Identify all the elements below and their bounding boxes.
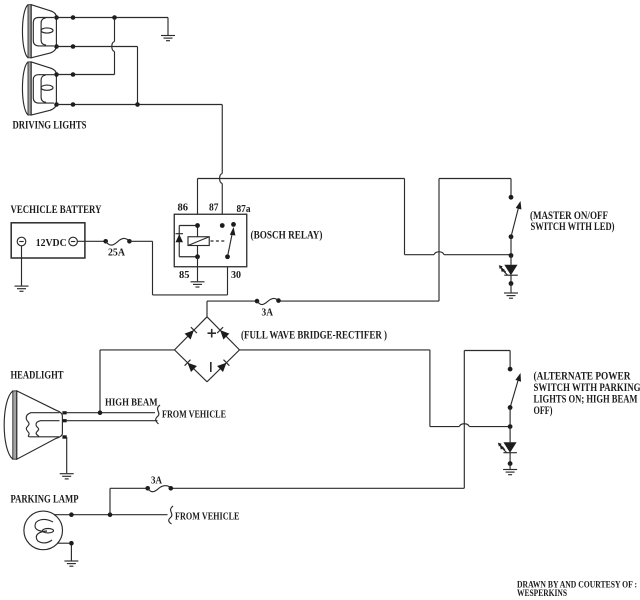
svg-text:30: 30 xyxy=(231,270,241,281)
ground master xyxy=(504,293,518,298)
parking lamp PL1 xyxy=(24,511,63,550)
svg-text:(BOSCH RELAY): (BOSCH RELAY) xyxy=(251,228,323,242)
bridge diode bottom-left xyxy=(185,360,197,372)
wire bridge right vertex to alt switch junction xyxy=(240,350,430,427)
driving light lamp DL1 xyxy=(22,5,58,58)
wire battery negative to ground xyxy=(21,246,23,286)
wire bridge left vertex to high beam junction xyxy=(100,350,175,413)
svg-text:WESPERKINS: WESPERKINS xyxy=(517,588,567,598)
node junction V1 top xyxy=(112,15,117,20)
wire LED2 to ground xyxy=(509,464,511,469)
wire parking lamp from vehicle xyxy=(54,514,167,516)
svg-text:VECHICLE BATTERY: VECHICLE BATTERY xyxy=(11,202,102,216)
svg-text:PARKING LAMP: PARKING LAMP xyxy=(11,492,79,506)
driving light lamp DL2 xyxy=(22,62,58,115)
wire parking 3A fuse line to alt switch top xyxy=(110,351,510,515)
node high beam junction xyxy=(98,410,103,415)
bridge diode top-left xyxy=(185,327,197,339)
svg-text:FROM VEHICLE: FROM VEHICLE xyxy=(162,410,226,421)
wire to master junction with hop over VB xyxy=(405,252,512,255)
ground alt xyxy=(503,470,517,475)
fuse F1 25A xyxy=(103,238,131,258)
wire DL2 top terminal xyxy=(57,74,115,76)
svg-text:25A: 25A xyxy=(108,248,126,259)
node parking fuse junction xyxy=(108,512,113,517)
wire master switch top feed xyxy=(439,179,511,198)
svg-text:87: 87 xyxy=(209,203,219,214)
svg-text:SWITCH WITH LED): SWITCH WITH LED) xyxy=(531,219,615,233)
node alt junction xyxy=(508,424,513,429)
ground parking xyxy=(64,561,78,566)
wire relay 85 to ground xyxy=(197,257,199,282)
bridge minus mark xyxy=(210,362,212,372)
wire DL2 bottom terminal to relay 87 feed xyxy=(57,104,223,106)
node master junction xyxy=(509,253,514,258)
svg-text:OFF): OFF) xyxy=(534,403,553,417)
svg-text:86: 86 xyxy=(178,203,189,214)
ground relay xyxy=(191,282,205,287)
wire vertical V1 linking DL1-top and DL2-top with hop over y46 xyxy=(112,18,115,75)
wire high beam from vehicle xyxy=(67,412,155,414)
relay U1 box xyxy=(174,214,247,267)
wire headlight low terminal from vehicle xyxy=(67,420,158,422)
wire relay 87 feed vertical with hop over y178 xyxy=(220,105,223,226)
node on wire at x72 xyxy=(71,72,76,77)
wire relay 86 up and right to master switch circuit xyxy=(198,179,405,255)
ground G1 xyxy=(161,18,175,41)
wire headlight ground terminal xyxy=(66,437,68,473)
wire DL1 bottom terminal xyxy=(57,46,138,48)
svg-text:HIGH BEAM: HIGH BEAM xyxy=(105,398,158,409)
bridge diode bottom-right xyxy=(217,360,229,372)
node relay 86 xyxy=(195,223,200,228)
svg-text:DRIVING LIGHTS: DRIVING LIGHTS xyxy=(13,118,87,132)
relay diode D1 branch xyxy=(176,226,198,257)
wire parking lamp bottom to ground xyxy=(58,543,72,560)
node relay 87a xyxy=(231,222,236,227)
bridge rectifier BR1 diamond xyxy=(175,317,240,382)
switch SW2 alternate power xyxy=(508,367,521,427)
node relay 30 xyxy=(225,254,230,259)
ground headlight xyxy=(60,474,74,479)
node on wire at x72 xyxy=(71,102,76,107)
fuse F3 3A (parking) xyxy=(145,476,173,492)
relay dashed actuator link xyxy=(211,240,225,242)
svg-text:85: 85 xyxy=(179,270,190,281)
svg-text:3A: 3A xyxy=(262,308,274,319)
bridge plus mark xyxy=(208,329,217,338)
LED1 xyxy=(499,256,518,286)
wire 3A fuse line bridge top to VB xyxy=(207,301,439,317)
squiggle wire-end marker (parking) xyxy=(169,506,173,524)
svg-text:FROM VEHICLE: FROM VEHICLE xyxy=(175,512,240,523)
wire alt junction feed with hop xyxy=(430,424,510,427)
node junction V2 bottom xyxy=(135,102,140,107)
wire battery positive to fuse xyxy=(77,240,105,242)
battery BT1 12VDC xyxy=(11,223,85,258)
bridge diode top-right xyxy=(217,327,229,339)
relay coil branch wire 86 to 85 xyxy=(197,226,199,257)
LED2 xyxy=(498,427,517,466)
svg-text:3A: 3A xyxy=(151,476,163,487)
relay contact arm 30 to 87a with arrowhead xyxy=(228,227,236,257)
node on wire at x72 xyxy=(71,44,76,49)
svg-text:(FULL WAVE BRIDGE-RECTIFER ): (FULL WAVE BRIDGE-RECTIFER ) xyxy=(241,328,387,342)
svg-text:12VDC: 12VDC xyxy=(36,237,67,249)
wire fuse to relay 30 (right, down, right, up) xyxy=(129,241,227,295)
node on wire at x72 xyxy=(71,15,76,20)
node parking wire x71 xyxy=(69,512,74,517)
relay coil K1 xyxy=(188,237,209,246)
node relay 87 xyxy=(220,223,225,228)
wire LED1 to ground xyxy=(510,284,512,293)
switch SW1 master on/off xyxy=(509,195,522,256)
squiggle wire-end marker xyxy=(156,405,160,424)
ground battery xyxy=(15,286,29,291)
node relay 85 xyxy=(195,254,200,259)
wire VB vertical down to 3A fuse line xyxy=(438,179,440,302)
wire vertical V2 linking DL1-bottom and DL2-bottom xyxy=(137,47,139,105)
wire DL1 top terminal to ground xyxy=(57,17,169,19)
svg-text:HEADLIGHT: HEADLIGHT xyxy=(11,368,64,382)
node parking bottom xyxy=(69,541,74,546)
headlight lamp HL1 xyxy=(4,391,67,459)
svg-text:87a: 87a xyxy=(237,204,251,215)
fuse F2 3A xyxy=(255,298,281,318)
